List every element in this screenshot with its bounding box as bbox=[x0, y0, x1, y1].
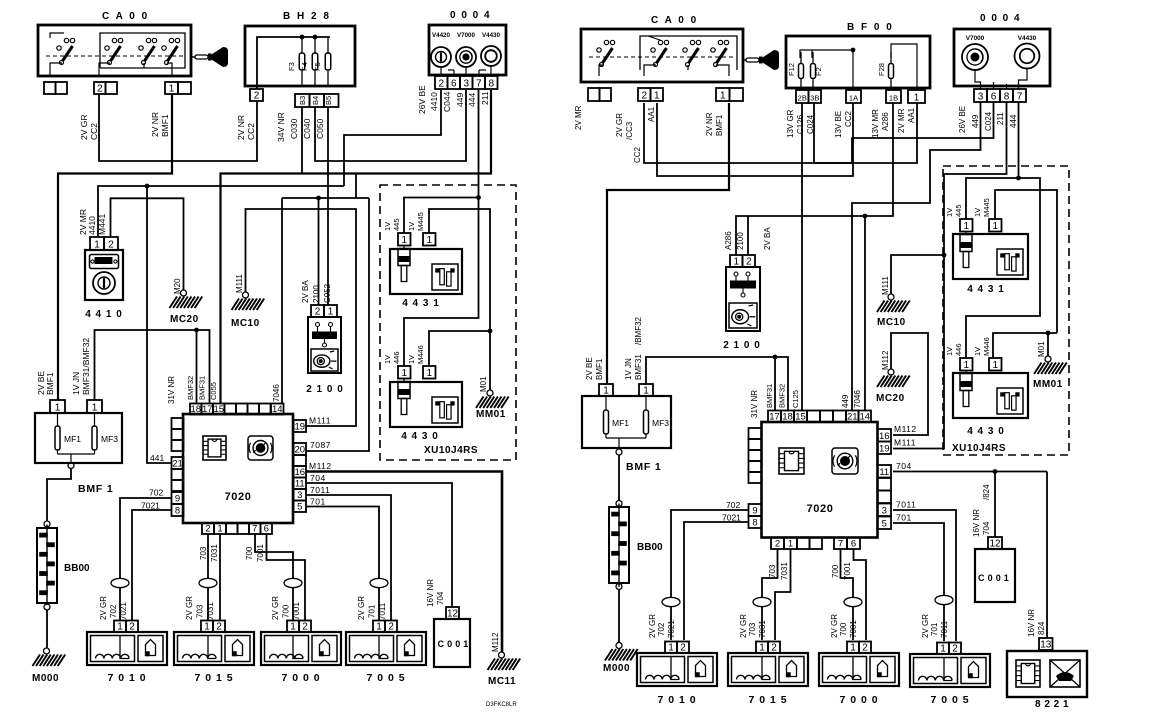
svg-text:2 1 0 0: 2 1 0 0 bbox=[723, 340, 761, 351]
label 1V JN / BMF31-BMF32 bbox=[71, 338, 91, 395]
fuse F3 bbox=[287, 37, 305, 86]
ground MC10 bbox=[231, 274, 264, 329]
component 4431 connector M445 bbox=[423, 233, 436, 246]
svg-text:M111: M111 bbox=[881, 276, 890, 295]
labels 2V GR / 700 / 7001 column (right) bbox=[830, 614, 858, 638]
svg-text:26V BE: 26V BE bbox=[417, 85, 427, 114]
wire C126: BF00-2B to 7020r pin 15 bbox=[801, 103, 803, 410]
svg-text:2V GR: 2V GR bbox=[921, 614, 930, 638]
svg-text:BMF32: BMF32 bbox=[778, 384, 787, 408]
component 8221 connector 13 bbox=[1039, 638, 1053, 650]
svg-text:/BMF32: /BMF32 bbox=[634, 316, 643, 345]
svg-text:F2: F2 bbox=[814, 67, 823, 76]
svg-text:C 0 0 1: C 0 0 1 bbox=[978, 573, 1009, 583]
svg-text:21: 21 bbox=[847, 411, 858, 422]
svg-text:4410: 4410 bbox=[429, 92, 439, 111]
svg-text:MF1: MF1 bbox=[612, 418, 629, 428]
svg-text:824: 824 bbox=[1037, 621, 1046, 635]
wire 703 pin2r to 7015r pin1 bbox=[762, 549, 778, 640]
svg-text:6: 6 bbox=[451, 78, 457, 89]
label 701 pin5 bbox=[310, 497, 326, 507]
svg-text:445: 445 bbox=[392, 218, 401, 231]
svg-text:12: 12 bbox=[447, 608, 459, 619]
svg-text:CC2: CC2 bbox=[844, 110, 853, 127]
label BMF31 pin17 bbox=[198, 376, 207, 400]
label 449 (left) bbox=[455, 93, 465, 107]
svg-text:1: 1 bbox=[992, 360, 998, 371]
svg-text:M445: M445 bbox=[416, 212, 425, 231]
svg-text:1V: 1V bbox=[383, 222, 392, 231]
MF1/MF3 bottom tie bbox=[58, 454, 95, 462]
CA00 right switch S3 bbox=[683, 40, 701, 70]
svg-text:7046: 7046 bbox=[853, 390, 862, 408]
wire CC2: CA00r-2 to BF00-1 bbox=[644, 103, 917, 163]
BH28 connector pin 2 bbox=[250, 89, 263, 101]
svg-text:7 0 0 5: 7 0 0 5 bbox=[366, 672, 405, 684]
wire 7031 pin1r to 7015r pin2 bbox=[775, 549, 791, 640]
svg-text:V4420: V4420 bbox=[432, 32, 450, 39]
junction dot M111 right bbox=[942, 253, 947, 258]
BH28 connector B3 B4 B5 bbox=[295, 94, 339, 107]
svg-text:2: 2 bbox=[254, 90, 260, 101]
svg-text:700: 700 bbox=[839, 622, 848, 636]
svg-text:6: 6 bbox=[991, 91, 997, 102]
component 8221 box bbox=[1007, 651, 1087, 697]
svg-text:1V: 1V bbox=[383, 355, 392, 364]
CA00 left inner frame bbox=[100, 33, 185, 68]
label A286 / 2100 / 2V BA bbox=[724, 227, 772, 250]
svg-text:B5: B5 bbox=[324, 96, 333, 105]
CA00 left switch S1 bbox=[50, 33, 75, 76]
labels 2V GR / 702 / 7021 column (right) bbox=[648, 614, 676, 638]
label C055 pin15 bbox=[209, 382, 218, 400]
fuse F28 bbox=[877, 52, 894, 90]
svg-text:BMF 1: BMF 1 bbox=[626, 461, 662, 473]
junction dot 7046 right bbox=[863, 214, 868, 219]
wire 700 pin7r to 7000r pin1 bbox=[841, 549, 854, 640]
wire 444 to 4431 valve 445 bbox=[404, 198, 479, 234]
svg-text:13: 13 bbox=[1040, 639, 1052, 650]
svg-text:V7000: V7000 bbox=[457, 32, 475, 39]
svg-text:17: 17 bbox=[769, 411, 780, 422]
svg-text:M112: M112 bbox=[309, 461, 332, 471]
svg-text:11: 11 bbox=[295, 478, 305, 489]
svg-text:449: 449 bbox=[971, 114, 980, 128]
ground M000 (left) bbox=[32, 648, 65, 684]
labels 13V GR / C126 / C024 under 2B 3B bbox=[786, 109, 815, 138]
labels 2V GR / 701 / 7011 column bbox=[357, 596, 387, 620]
svg-text:M112: M112 bbox=[881, 350, 890, 370]
label 4431 (left) bbox=[402, 298, 440, 309]
ignition key icon (left) bbox=[191, 47, 228, 67]
component C001 box (left) bbox=[434, 619, 470, 667]
svg-text:2V NR: 2V NR bbox=[150, 112, 160, 137]
svg-text:MC20: MC20 bbox=[876, 393, 905, 404]
wire 7046/7087/2V BA shared link from bus bbox=[355, 174, 357, 199]
0004 right connector row 3 6 8 7 bbox=[974, 89, 1026, 102]
fuse MF3r bbox=[644, 396, 670, 438]
oval 7005 wire bbox=[370, 578, 388, 587]
ignition key icon (right) bbox=[743, 50, 779, 70]
component BMF1r fuse holder box bbox=[582, 396, 671, 448]
label 1V M445 (right) bbox=[973, 198, 991, 217]
label M111 pin19 bbox=[309, 416, 331, 426]
svg-text:21: 21 bbox=[172, 458, 183, 469]
svg-text:1: 1 bbox=[376, 621, 382, 632]
svg-text:11: 11 bbox=[879, 467, 889, 478]
svg-text:34V NR: 34V NR bbox=[276, 112, 286, 142]
svg-text:701: 701 bbox=[310, 497, 326, 507]
fuse MF1r bbox=[604, 396, 630, 438]
label 703 below pin2 bbox=[199, 546, 208, 560]
svg-text:1B: 1B bbox=[889, 93, 898, 102]
label 700 below pin7 bbox=[245, 546, 254, 560]
svg-text:C024: C024 bbox=[984, 111, 993, 131]
svg-text:4 4 3 1: 4 4 3 1 bbox=[967, 284, 1005, 295]
wire 7021 pin8 to 7010 pin2 bbox=[132, 510, 172, 621]
svg-text:B3: B3 bbox=[298, 96, 307, 105]
label C044 bbox=[442, 91, 452, 112]
CA00 left internal dashed common line bbox=[46, 55, 184, 57]
wire 7087 to 7020 pin 20 bbox=[306, 198, 369, 451]
wire 2V BA to 2100r pin 2 bbox=[747, 216, 749, 255]
CA00 right connector 1 (BMF1) bbox=[716, 88, 743, 101]
label C030 bbox=[289, 118, 299, 139]
dashed engine box XU10J4RS (right) bbox=[943, 166, 1069, 455]
svg-text:MF3: MF3 bbox=[652, 418, 669, 428]
svg-text:0 0 0 4: 0 0 0 4 bbox=[450, 10, 491, 21]
labels 2V GR / 701 / 7011 column (right) bbox=[921, 614, 949, 638]
svg-text:7020: 7020 bbox=[807, 503, 834, 515]
label 1V M445 bbox=[407, 212, 425, 231]
svg-text:2V NR: 2V NR bbox=[705, 112, 714, 136]
svg-text:5: 5 bbox=[297, 501, 302, 512]
component BF00 fuse box bbox=[786, 36, 930, 88]
component 4431r connector 445 bbox=[960, 219, 973, 232]
svg-text:700: 700 bbox=[831, 564, 840, 578]
svg-text:BMF1: BMF1 bbox=[715, 114, 724, 136]
label 1V 445 (right) bbox=[945, 204, 963, 217]
svg-text:F3: F3 bbox=[287, 62, 296, 71]
svg-text:702: 702 bbox=[109, 604, 118, 618]
component 4431 connector 445 bbox=[398, 233, 411, 246]
svg-text:211: 211 bbox=[996, 112, 1005, 125]
svg-text:C 0 0 1: C 0 0 1 bbox=[438, 639, 469, 649]
oval 7015 wire bbox=[199, 578, 217, 587]
CA00 left switch S4 bbox=[162, 38, 180, 76]
svg-text:7: 7 bbox=[838, 538, 843, 549]
component 4430 connector 446 bbox=[398, 366, 411, 379]
svg-text:2: 2 bbox=[108, 239, 114, 250]
labels 16V NR / 704 / /824 at C001r bbox=[972, 484, 991, 537]
svg-text:1: 1 bbox=[720, 90, 726, 101]
svg-text:13V GR: 13V GR bbox=[786, 109, 795, 138]
component 2100r connector 1|2 bbox=[730, 255, 755, 267]
svg-text:1: 1 bbox=[204, 621, 210, 632]
svg-text:9: 9 bbox=[752, 505, 757, 516]
svg-text:2V GR: 2V GR bbox=[79, 114, 89, 140]
svg-text:703: 703 bbox=[748, 622, 757, 636]
CA00 left connector (unlabelled) bbox=[44, 82, 67, 94]
label M111 pin19r bbox=[894, 438, 916, 448]
svg-text:3: 3 bbox=[463, 78, 469, 89]
label 1V 446 bbox=[383, 351, 401, 364]
svg-text:16: 16 bbox=[294, 467, 305, 478]
svg-text:7 0 1 0: 7 0 1 0 bbox=[657, 694, 696, 706]
7020r top pin row bbox=[768, 411, 871, 423]
oval 7010r wire bbox=[662, 597, 680, 606]
wire net C055/211: 0004-8 down, bus to 7020 pin 15 bbox=[221, 90, 492, 404]
7020 left bottom pin row bbox=[202, 523, 272, 534]
svg-text:7 0 1 5: 7 0 1 5 bbox=[194, 672, 233, 684]
svg-text:C040: C040 bbox=[302, 118, 312, 139]
component injector 7010 bbox=[87, 621, 167, 685]
7020r knock-sensor icon bbox=[832, 448, 858, 474]
svg-text:445: 445 bbox=[954, 204, 963, 217]
svg-text:C044: C044 bbox=[442, 91, 452, 112]
svg-text:BMF1: BMF1 bbox=[160, 114, 170, 137]
label 700 below pin7r bbox=[831, 564, 840, 578]
svg-text:F4: F4 bbox=[300, 62, 309, 71]
component C001 box (right) bbox=[975, 549, 1015, 602]
label 7020 (left) bbox=[225, 491, 252, 503]
svg-text:1: 1 bbox=[426, 368, 432, 379]
ground MM01 (left) bbox=[476, 376, 509, 420]
svg-text:7021: 7021 bbox=[119, 602, 128, 620]
svg-text:702: 702 bbox=[149, 488, 163, 498]
wire 7021 pin8r to 7010r pin2 bbox=[684, 522, 749, 640]
oval 7010 wire bbox=[111, 578, 129, 587]
wire 441 to 7020 pin 21 bbox=[147, 186, 172, 463]
svg-text:V4430: V4430 bbox=[1018, 35, 1037, 42]
svg-text:9: 9 bbox=[175, 493, 180, 504]
junction dot 2100 pin 2 bbox=[316, 196, 321, 201]
svg-text:2: 2 bbox=[771, 642, 777, 653]
wire 449: 0004r-3 to 7020r pin 21 bbox=[852, 102, 981, 410]
label 0004 (right) bbox=[980, 13, 1021, 24]
component BB00 ballast resistor bbox=[37, 521, 57, 610]
svg-text:2: 2 bbox=[388, 621, 394, 632]
label 2V BE / BMF1 (right) bbox=[585, 357, 604, 380]
label BMF1 node bbox=[78, 483, 114, 495]
component 0004 instrument cluster (left) box bbox=[429, 25, 506, 75]
label 4410 (component) bbox=[85, 309, 123, 320]
svg-text:1: 1 bbox=[914, 92, 920, 103]
component 4430r box bbox=[953, 371, 1028, 419]
svg-text:XU10J4RS: XU10J4RS bbox=[424, 445, 478, 456]
wire 7046 to 7020 pin 14 bbox=[281, 198, 283, 404]
component 4430 connector M446 bbox=[423, 366, 436, 379]
svg-text:1: 1 bbox=[963, 360, 969, 371]
svg-text:7: 7 bbox=[252, 523, 257, 534]
label 2V BA / 2100 / C052 bbox=[301, 280, 332, 303]
svg-text:15: 15 bbox=[795, 411, 806, 422]
component BH28 fuse box outer bbox=[245, 26, 355, 86]
component 4431 box bbox=[390, 246, 462, 295]
svg-text:2100: 2100 bbox=[736, 232, 745, 250]
component injector 7005 (right) bbox=[910, 643, 990, 707]
svg-text:2V GR: 2V GR bbox=[357, 596, 366, 620]
svg-text:CC2: CC2 bbox=[246, 123, 256, 140]
svg-text:A286: A286 bbox=[724, 231, 733, 250]
svg-text:BMF 1: BMF 1 bbox=[78, 483, 114, 495]
plate code D3FKC8LR bbox=[486, 702, 517, 708]
svg-text:2100: 2100 bbox=[312, 285, 321, 303]
wire 7001 pin6 to 7000 pin2 bbox=[267, 534, 306, 621]
ground MC20 bbox=[170, 278, 203, 325]
7020 left top pin row bbox=[190, 404, 284, 415]
svg-text:D3FKC8LR: D3FKC8LR bbox=[486, 702, 517, 708]
wire 702 pin9r to 7010r pin1 bbox=[671, 510, 749, 640]
oval 7000r wire bbox=[844, 597, 862, 606]
label 703 below pin2r bbox=[768, 564, 777, 578]
svg-text:1: 1 bbox=[643, 385, 649, 396]
ground MC10 (right) bbox=[877, 276, 910, 328]
svg-text:701: 701 bbox=[368, 604, 377, 618]
svg-text:700: 700 bbox=[245, 546, 254, 560]
label C050 bbox=[315, 118, 325, 139]
node circle below BMF1 box bbox=[68, 463, 74, 469]
svg-text:1V: 1V bbox=[945, 347, 954, 356]
svg-text:449: 449 bbox=[841, 394, 850, 408]
svg-text:2B: 2B bbox=[798, 93, 807, 102]
svg-text:1: 1 bbox=[654, 90, 660, 101]
7020r left pin column bbox=[749, 428, 762, 528]
svg-text:1V JN: 1V JN bbox=[624, 358, 633, 380]
label M112 pin16r bbox=[894, 424, 917, 434]
svg-text:7011: 7011 bbox=[896, 500, 916, 510]
svg-text:2V BE: 2V BE bbox=[585, 357, 594, 380]
label 0004 (left) bbox=[450, 10, 491, 21]
svg-text:19: 19 bbox=[879, 443, 890, 454]
wire to 2100 pin 2 bbox=[318, 198, 320, 305]
gauge V7000 (left) bbox=[456, 32, 476, 67]
label CA00 (left) bbox=[102, 11, 149, 22]
label 2V MR / 4410 / M441 bbox=[78, 209, 107, 235]
svg-text:2: 2 bbox=[952, 643, 958, 654]
wire B3 branch to bus bbox=[301, 107, 303, 174]
label 4431 (right) bbox=[967, 284, 1005, 295]
label 7021 pin8r bbox=[722, 513, 741, 523]
svg-text:BMF31/BMF32: BMF31/BMF32 bbox=[81, 338, 91, 395]
svg-text:2V MR: 2V MR bbox=[574, 105, 583, 130]
component 7020 ECU box (left) bbox=[183, 414, 293, 523]
label 7021 pin8 bbox=[141, 501, 160, 511]
svg-text:1: 1 bbox=[668, 642, 674, 653]
wire 444r to 446 valve bbox=[966, 178, 1040, 358]
0004 right gauge stubs bbox=[975, 69, 1027, 90]
wire 444r to 445 valve bbox=[966, 178, 1019, 219]
component BB00r ballast resistor bbox=[609, 501, 629, 590]
wire 444 down to 4430 valve 446 bbox=[404, 198, 479, 367]
svg-text:/CC3: /CC3 bbox=[625, 121, 634, 140]
BF00 F28 feed bbox=[891, 44, 917, 90]
svg-text:C030: C030 bbox=[289, 118, 299, 139]
wire A286: BF00-1B to 2100r pin 1 bbox=[736, 103, 893, 255]
svg-text:1: 1 bbox=[290, 621, 296, 632]
svg-text:C052: C052 bbox=[323, 283, 332, 303]
gauge V4430 (right) bbox=[1015, 35, 1040, 69]
gauge V4430 (left) bbox=[481, 32, 501, 66]
svg-text:2V GR: 2V GR bbox=[830, 614, 839, 638]
label 1V M446 bbox=[407, 345, 425, 364]
svg-text:4 4 3 1: 4 4 3 1 bbox=[402, 298, 440, 309]
MF1r pin connector bbox=[599, 384, 613, 396]
CA00 left switch S2 bbox=[99, 38, 123, 76]
label 4410 (wire) bbox=[429, 92, 439, 111]
label 7001 below pin6r bbox=[843, 562, 852, 580]
svg-text:7011: 7011 bbox=[940, 620, 949, 638]
wire AA1: CA00r-1 to BF00-1A bbox=[657, 103, 853, 176]
label 16V NR / 704 at C001 bbox=[426, 579, 445, 607]
svg-text:7087: 7087 bbox=[310, 440, 331, 450]
labels 26V BE / 449 / C024 / 211 / 444 (right) bbox=[958, 106, 1018, 133]
label M112 pin16 bbox=[309, 461, 332, 471]
label 7046 pin14r bbox=[853, 390, 862, 408]
svg-text:M000: M000 bbox=[32, 673, 59, 684]
svg-text:2V GR: 2V GR bbox=[185, 596, 194, 620]
svg-text:7 0 0 5: 7 0 0 5 bbox=[930, 694, 969, 706]
BF00 connector 1B bbox=[886, 90, 901, 103]
wire CC2: CA00-2 to BH28-2 bbox=[99, 94, 257, 161]
fuse F4 bbox=[300, 37, 318, 86]
svg-text:MC10: MC10 bbox=[231, 318, 260, 329]
svg-text:3: 3 bbox=[297, 490, 302, 501]
svg-text:2 1 0 0: 2 1 0 0 bbox=[306, 384, 344, 395]
svg-text:704: 704 bbox=[896, 461, 912, 471]
label 2V NR / CC2 under BH28-2 bbox=[236, 115, 256, 140]
oval 7015r wire bbox=[753, 597, 771, 606]
component injector 7010 (right) bbox=[637, 642, 717, 707]
svg-text:1: 1 bbox=[217, 523, 222, 534]
svg-text:BMF31: BMF31 bbox=[198, 376, 207, 400]
component 4430r connector 446 bbox=[960, 358, 973, 371]
7020 right side pin column bbox=[294, 420, 307, 512]
svg-text:1: 1 bbox=[963, 221, 969, 232]
7020 left side pin column bbox=[172, 418, 184, 516]
component injector 7015 (right) bbox=[728, 642, 808, 707]
wire 4410: 0004-2 to junction line bbox=[344, 90, 441, 186]
label 444 (left) bbox=[467, 93, 477, 107]
svg-text:441: 441 bbox=[150, 453, 164, 463]
wire 211/M111: 0004r-8 to MC10r and pin 19 bbox=[893, 102, 1007, 449]
wire M111: MC10 ground to 7020 pin 19 bbox=[246, 209, 357, 426]
svg-text:18: 18 bbox=[782, 411, 793, 422]
wire 7011 pin3 to 7005 pin2 bbox=[306, 495, 391, 621]
CA00 left connector pin 2 bbox=[94, 82, 117, 94]
svg-text:MC20: MC20 bbox=[170, 314, 199, 325]
wire 7031 pin1 to 7015 pin2 bbox=[219, 534, 221, 621]
wire M441: 4410-2 to MC20 ground bbox=[111, 198, 184, 290]
wire 449: B4 to 0004-3 bbox=[315, 90, 466, 161]
label 31V NR bbox=[167, 376, 176, 404]
label 702 pin9r bbox=[726, 500, 740, 510]
label BB00 (left) bbox=[64, 563, 90, 574]
label 2100 (right) bbox=[723, 340, 761, 351]
wire 701 pin5r to 7005r pin1 bbox=[893, 523, 944, 641]
svg-text:4 4 3 0: 4 4 3 0 bbox=[401, 431, 439, 442]
svg-text:B F 0 0: B F 0 0 bbox=[847, 22, 894, 33]
label 702 pin9 bbox=[149, 488, 163, 498]
label 2100 (left) bbox=[306, 384, 344, 395]
svg-text:1: 1 bbox=[55, 402, 61, 413]
node circle below BMF1r bbox=[616, 449, 622, 455]
svg-text:14: 14 bbox=[859, 411, 870, 422]
svg-text:702: 702 bbox=[657, 622, 666, 636]
label BMF32 pin18r bbox=[778, 384, 787, 408]
component 4410 body bbox=[85, 250, 123, 300]
svg-text:700: 700 bbox=[282, 604, 291, 618]
